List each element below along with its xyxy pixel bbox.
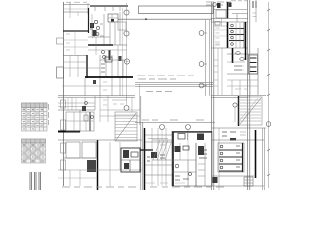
left boundary wall <box>63 2 65 186</box>
inner partitions upper-left <box>104 12 120 45</box>
grid bubble A3 <box>124 106 129 111</box>
facade door dot <box>145 18 147 20</box>
wc stalls lower right <box>218 143 244 172</box>
dark room cluster x120-142 <box>121 148 140 172</box>
east wing west wall double <box>212 2 214 190</box>
top-right room <box>213 9 247 11</box>
wall under stair <box>97 140 99 190</box>
lower-left wing <box>58 109 95 111</box>
small lobby box <box>108 14 118 22</box>
wc ovals <box>236 52 240 55</box>
long facade line below hall <box>118 18 212 20</box>
urinal row box <box>249 55 258 74</box>
legend table 1 <box>22 103 48 131</box>
east wing middle rooms <box>232 48 234 63</box>
table 2 cell marks <box>23 145 44 161</box>
landing below stair <box>230 138 236 141</box>
small bars top far right <box>253 1 256 8</box>
grid line A (x=126.5) <box>126 3 128 105</box>
top small text marks <box>66 1 87 3</box>
lower-left wing east wall <box>141 96 143 190</box>
upper-left room walls thick <box>88 8 90 33</box>
inner wall line x=122.5 <box>122 8 124 96</box>
lower grid bubble 2 <box>186 125 191 130</box>
grid bubble A2 <box>124 31 129 36</box>
grid line B verticals near hall right <box>206 20 210 96</box>
east wing inner partitions <box>218 48 222 95</box>
corridor text row <box>138 78 176 80</box>
stair east wing <box>238 96 240 126</box>
main spine wall thick <box>85 76 133 78</box>
wc stall block east wing <box>227 22 229 48</box>
lower band dim dashes <box>142 119 204 121</box>
small grid box bottom right <box>244 177 253 186</box>
courtyard dim text <box>137 75 194 77</box>
room divider mid <box>63 40 88 47</box>
left jutting closet boxes <box>57 38 64 44</box>
great hall rectangle <box>139 6 214 14</box>
hall corner bubble <box>213 3 217 7</box>
right dimension line <box>268 2 270 188</box>
thick pier <box>144 128 146 190</box>
table 1 cell marks <box>23 110 43 130</box>
wc fixture cluster <box>94 20 97 23</box>
table 2 cell fills <box>23 144 45 163</box>
corridor band right part <box>135 83 213 87</box>
legend table 2 <box>22 139 46 163</box>
stall partitions dark <box>229 28 244 30</box>
grid bubble B2 <box>199 62 204 67</box>
escalator hatch <box>152 140 172 160</box>
right grid bubble <box>266 122 271 127</box>
middle-bottom partitions <box>152 128 166 186</box>
grid bubble A2b <box>124 59 129 64</box>
top dimension line thin <box>63 4 90 6</box>
right dim ticks <box>267 9 270 176</box>
scale bars bottom-left <box>30 172 32 190</box>
stair lower-left <box>115 112 137 141</box>
top thick wall bar <box>90 5 128 7</box>
top dimension ticks <box>70 2 120 14</box>
east wall thick pier <box>245 22 247 60</box>
upper-left room thin walls <box>63 11 88 13</box>
fixtures upper row in box <box>178 134 185 140</box>
wing left edge line <box>139 84 141 125</box>
mid-left partitions <box>63 55 87 57</box>
table 1 cell fills <box>23 108 44 126</box>
lower band line <box>135 122 215 124</box>
lower-middle room box <box>172 132 212 187</box>
thick wall lower right <box>255 130 257 178</box>
grid bubble B1 <box>199 31 204 36</box>
top-right text block <box>206 2 231 5</box>
east wing east wall double <box>248 0 250 190</box>
lower grid bubble 1 <box>160 125 165 130</box>
bottom dimension text row <box>62 186 224 188</box>
left wall pilaster boxes <box>61 100 66 108</box>
corridor lines left block <box>58 96 135 98</box>
small rooms lower-left <box>66 142 80 158</box>
grid bubble A1 <box>124 10 129 15</box>
upper east room details <box>214 25 227 27</box>
mid grid bubble <box>233 103 237 107</box>
grid bubble B3 <box>199 83 204 88</box>
lower east wing rooms <box>212 127 266 129</box>
